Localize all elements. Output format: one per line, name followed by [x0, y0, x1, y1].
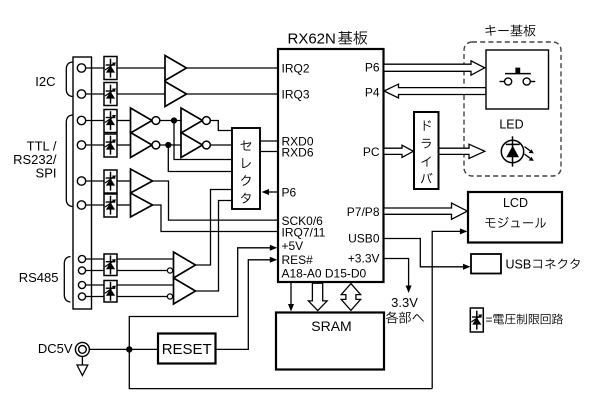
- connector pin 8 (RS485): [78, 267, 85, 274]
- inverter U4: [131, 133, 153, 158]
- inverter U5: [181, 108, 203, 133]
- wire U10 to selector in6: [196, 201, 233, 292]
- wire U6 to selector in2: [210, 144, 232, 146]
- wire P6 to selector (select control): [264, 191, 278, 193]
- svg-text:+3.3V: +3.3V: [348, 252, 380, 266]
- RESET circuit U16: [158, 334, 216, 364]
- svg-text:RX62N: RX62N: [288, 31, 336, 48]
- push button SW1: [500, 81, 505, 83]
- voltage limiter D6: [104, 194, 117, 217]
- label key board: [485, 25, 495, 36]
- connector pin 9 (RS485): [78, 281, 85, 288]
- connector pin 10 (RS485): [78, 293, 85, 300]
- wire D1 to buffer U1: [117, 67, 165, 69]
- wire 5V to LCD: [432, 231, 463, 388]
- receiver U10 (RS485 pair2): [174, 278, 196, 304]
- selector U11: [232, 128, 260, 209]
- buffer U7 (SPI line1): [131, 169, 153, 193]
- bus arrow key board to P4: [384, 84, 486, 98]
- connector pin 7 (RS485): [78, 255, 85, 262]
- voltage limiter D1: [104, 57, 117, 80]
- buffer U1 (I2C line1): [165, 56, 187, 81]
- bus arrow driver to LED: [439, 144, 485, 158]
- wire U4 to U6 with node B: [160, 144, 181, 146]
- svg-text:DC5V: DC5V: [38, 341, 73, 356]
- svg-text:=: =: [486, 313, 493, 327]
- svg-text:SPI: SPI: [36, 166, 57, 181]
- wire selector to RXD0: [260, 140, 278, 142]
- MCU board U12 (RX62N): [278, 49, 384, 282]
- svg-text:USB: USB: [506, 258, 532, 272]
- connector pin 5: [77, 177, 85, 185]
- wire RESET to RES#: [216, 260, 273, 350]
- LED D9: [501, 140, 523, 162]
- svg-text:P4: P4: [365, 86, 380, 100]
- voltage limiter D4: [104, 134, 117, 157]
- svg-text:LCD: LCD: [503, 196, 528, 210]
- wire node C to bottom rail: [129, 349, 432, 388]
- wire U9 to selector in5: [196, 190, 233, 266]
- wire pin3 to limiter: [86, 120, 104, 122]
- wire USB0 to USB connector: [384, 239, 466, 267]
- svg-text:USB0: USB0: [348, 232, 380, 246]
- wire U7 to SCK0/6: [153, 181, 279, 220]
- wire U8 to IRQ7/11: [153, 205, 279, 232]
- receiver U9 (RS485 pair1): [174, 252, 196, 278]
- svg-text:P7/P8: P7/P8: [347, 205, 380, 219]
- voltage limiter D3: [104, 110, 117, 133]
- wire pin2 to limiter: [86, 93, 104, 95]
- voltage limiter D8 (RS485 pair2): [104, 281, 117, 303]
- svg-text:RXD6: RXD6: [282, 146, 314, 160]
- wire D8 to U10 enable bubble: [117, 296, 167, 298]
- svg-text:IRQ3: IRQ3: [282, 88, 310, 102]
- wire D2 to buffer U2: [117, 93, 165, 95]
- bus arrow P6 to key board: [384, 61, 485, 75]
- address bus arrow to SRAM: [308, 283, 327, 310]
- svg-text:I2C: I2C: [35, 74, 55, 89]
- wire jack to node C: [89, 348, 129, 350]
- SRAM U15: [276, 313, 384, 370]
- wire node C to RESET: [132, 348, 158, 350]
- node C junction: [127, 347, 132, 352]
- inverter U6: [181, 133, 203, 158]
- push button box: [486, 50, 549, 109]
- voltage limiter D7 (RS485 pair1): [104, 254, 117, 276]
- node A junction: [171, 118, 176, 123]
- wire pin6 to limiter: [86, 204, 104, 206]
- wire D3 to inverter U3: [117, 120, 131, 122]
- wire D4 to inverter U4: [117, 144, 131, 146]
- wire pin10 to limiter: [86, 296, 104, 298]
- wire U2 to IRQ3: [187, 93, 279, 95]
- connector pin 2: [77, 90, 85, 98]
- wire U1 to IRQ2: [187, 67, 279, 69]
- wire D7 to receiver U9: [117, 258, 174, 260]
- data bus arrow to/from SRAM: [341, 284, 360, 311]
- connector strip (pin header): [73, 57, 92, 309]
- connector pin 3: [77, 116, 85, 124]
- node B junction: [166, 142, 171, 147]
- wire pin5 to limiter: [86, 180, 104, 182]
- wire U3 to U5 with node A: [160, 120, 181, 122]
- wire selector to RXD6: [260, 151, 278, 153]
- inverter U3: [131, 108, 153, 133]
- buffer U2 (I2C line2): [165, 82, 187, 107]
- bracket I2C: [66, 62, 72, 97]
- wire node C to +5V: [129, 248, 272, 350]
- connector pin 1: [77, 64, 85, 72]
- wire ALE to SRAM: [290, 283, 292, 308]
- svg-text:IRQ7/11: IRQ7/11: [282, 226, 326, 240]
- wire D5 to buffer U7: [117, 180, 131, 182]
- wire node A to selector in3: [174, 121, 232, 160]
- key board outline (dashed): [464, 42, 561, 176]
- wire pin1 to limiter: [86, 67, 104, 69]
- connector pin 6: [77, 201, 85, 209]
- svg-text:LED: LED: [499, 118, 523, 132]
- buffer U8 (SPI line2): [131, 193, 153, 217]
- ground: [81, 356, 83, 365]
- bus arrow P7/P8 to LCD: [384, 203, 468, 219]
- svg-text:RES#: RES#: [282, 253, 314, 267]
- wire U5 to selector in1: [210, 121, 232, 131]
- USB connector J2: [471, 254, 501, 274]
- svg-text:+5V: +5V: [282, 239, 304, 253]
- wire pin4 to limiter: [86, 144, 104, 146]
- voltage limiter D2: [104, 83, 117, 106]
- svg-text:PC: PC: [363, 145, 380, 159]
- DC5V jack J3: [75, 342, 89, 356]
- bus arrow PC to driver: [384, 145, 414, 157]
- wire +3.3V distribution: [384, 259, 409, 288]
- wire pin7 to limiter: [86, 258, 104, 260]
- wire pin9 to limiter: [86, 284, 104, 286]
- wire D8 to receiver U10: [117, 284, 174, 286]
- wire D6 to buffer U8: [117, 204, 131, 206]
- LCD module U14: [468, 192, 562, 243]
- svg-text:RS485: RS485: [19, 270, 59, 285]
- svg-text:A18-A0 D15-D0: A18-A0 D15-D0: [282, 267, 367, 281]
- voltage limiter D5: [104, 170, 117, 193]
- legend voltage limiter symbol: [470, 308, 483, 332]
- wire D7 to U9 enable bubble: [117, 270, 167, 272]
- wire node B to selector in4: [168, 145, 232, 172]
- bracket RS485: [64, 257, 70, 303]
- svg-text:P6: P6: [282, 186, 297, 200]
- bracket TTL/RS232/SPI: [66, 115, 72, 207]
- svg-text:SRAM: SRAM: [311, 318, 351, 334]
- svg-text:RESET: RESET: [162, 341, 212, 358]
- svg-text:IRQ2: IRQ2: [282, 62, 310, 76]
- connector pin 4: [77, 141, 85, 149]
- wire pin8 to limiter: [86, 270, 104, 272]
- svg-text:3.3V: 3.3V: [391, 295, 418, 310]
- driver U13: [414, 112, 439, 189]
- svg-text:P6: P6: [365, 61, 380, 75]
